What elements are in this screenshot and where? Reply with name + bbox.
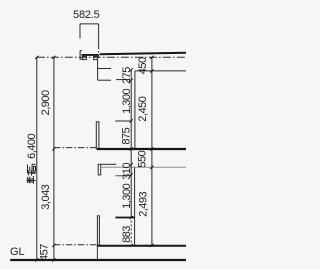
svg-text:883: 883 (121, 226, 133, 243)
eaves level centerline dash-dot (37, 56, 186, 58)
roof top thick line (100, 53, 186, 54)
foundation line below grade (96, 245, 98, 259)
dim 582.5 right extension (98, 24, 100, 45)
2F wall left face (97, 57, 99, 80)
dimension line A dashed lower (130, 217, 132, 246)
chain tick marks (35, 56, 153, 262)
dimension line B (151, 57, 153, 245)
svg-text:310: 310 (121, 162, 133, 179)
window head extension stub (116, 79, 130, 81)
dimension line A (130, 70, 132, 217)
svg-text:2,493: 2,493 (137, 192, 149, 217)
1FL level dash-dot left (54, 244, 98, 246)
2FL extension dash-dot left (54, 147, 97, 149)
1F ceiling extension grey line (101, 166, 186, 168)
svg-text:6,400: 6,400 (26, 133, 38, 158)
svg-text:GL: GL (10, 246, 25, 258)
2F column section (96, 122, 99, 149)
svg-text:1,300: 1,300 (121, 183, 133, 208)
wall centerline vertical dash-dot (98, 45, 100, 57)
svg-text:2,900: 2,900 (40, 90, 52, 115)
label 軒高 6,400 rotated with hand-drawn kanji (26, 133, 38, 183)
kanji 高 (28, 164, 36, 174)
kanji 軒 (27, 170, 36, 184)
2FL floor line thick (97, 148, 186, 150)
gutter top thick line (82, 54, 99, 56)
right wall line upper (134, 71, 136, 149)
1F ceiling line (101, 163, 117, 165)
svg-text:457: 457 (39, 244, 51, 261)
1F floor line thick (115, 217, 134, 219)
svg-text:875: 875 (121, 127, 133, 144)
dim 582.5 dimension line (80, 23, 99, 25)
left outer dimension line (36, 57, 38, 260)
svg-text:3,043: 3,043 (40, 184, 52, 209)
GL ground line thick (10, 259, 186, 261)
svg-text:2,450: 2,450 (137, 96, 149, 121)
1FL level line solid thick (97, 245, 186, 247)
svg-text:582.5: 582.5 (73, 9, 100, 21)
svg-text:550: 550 (136, 150, 148, 167)
left inner dimension line (53, 57, 55, 260)
foundation section (97, 216, 99, 246)
2F ceiling line (98, 68, 111, 70)
2F window head line (98, 79, 111, 81)
1F window head extension line (115, 175, 131, 177)
svg-text:275: 275 (121, 67, 133, 84)
dim 582.5 left extension (79, 24, 81, 39)
1F hanging wall section (98, 164, 101, 175)
gutter end bracket (80, 51, 83, 60)
eaves soffit line right (135, 70, 186, 72)
rafter block left (83, 57, 87, 60)
window sill line (115, 120, 131, 122)
1F interior wall line (134, 167, 136, 245)
svg-text:450: 450 (137, 57, 149, 74)
rafter block right (94, 57, 98, 60)
svg-text:1,300: 1,300 (121, 89, 133, 114)
